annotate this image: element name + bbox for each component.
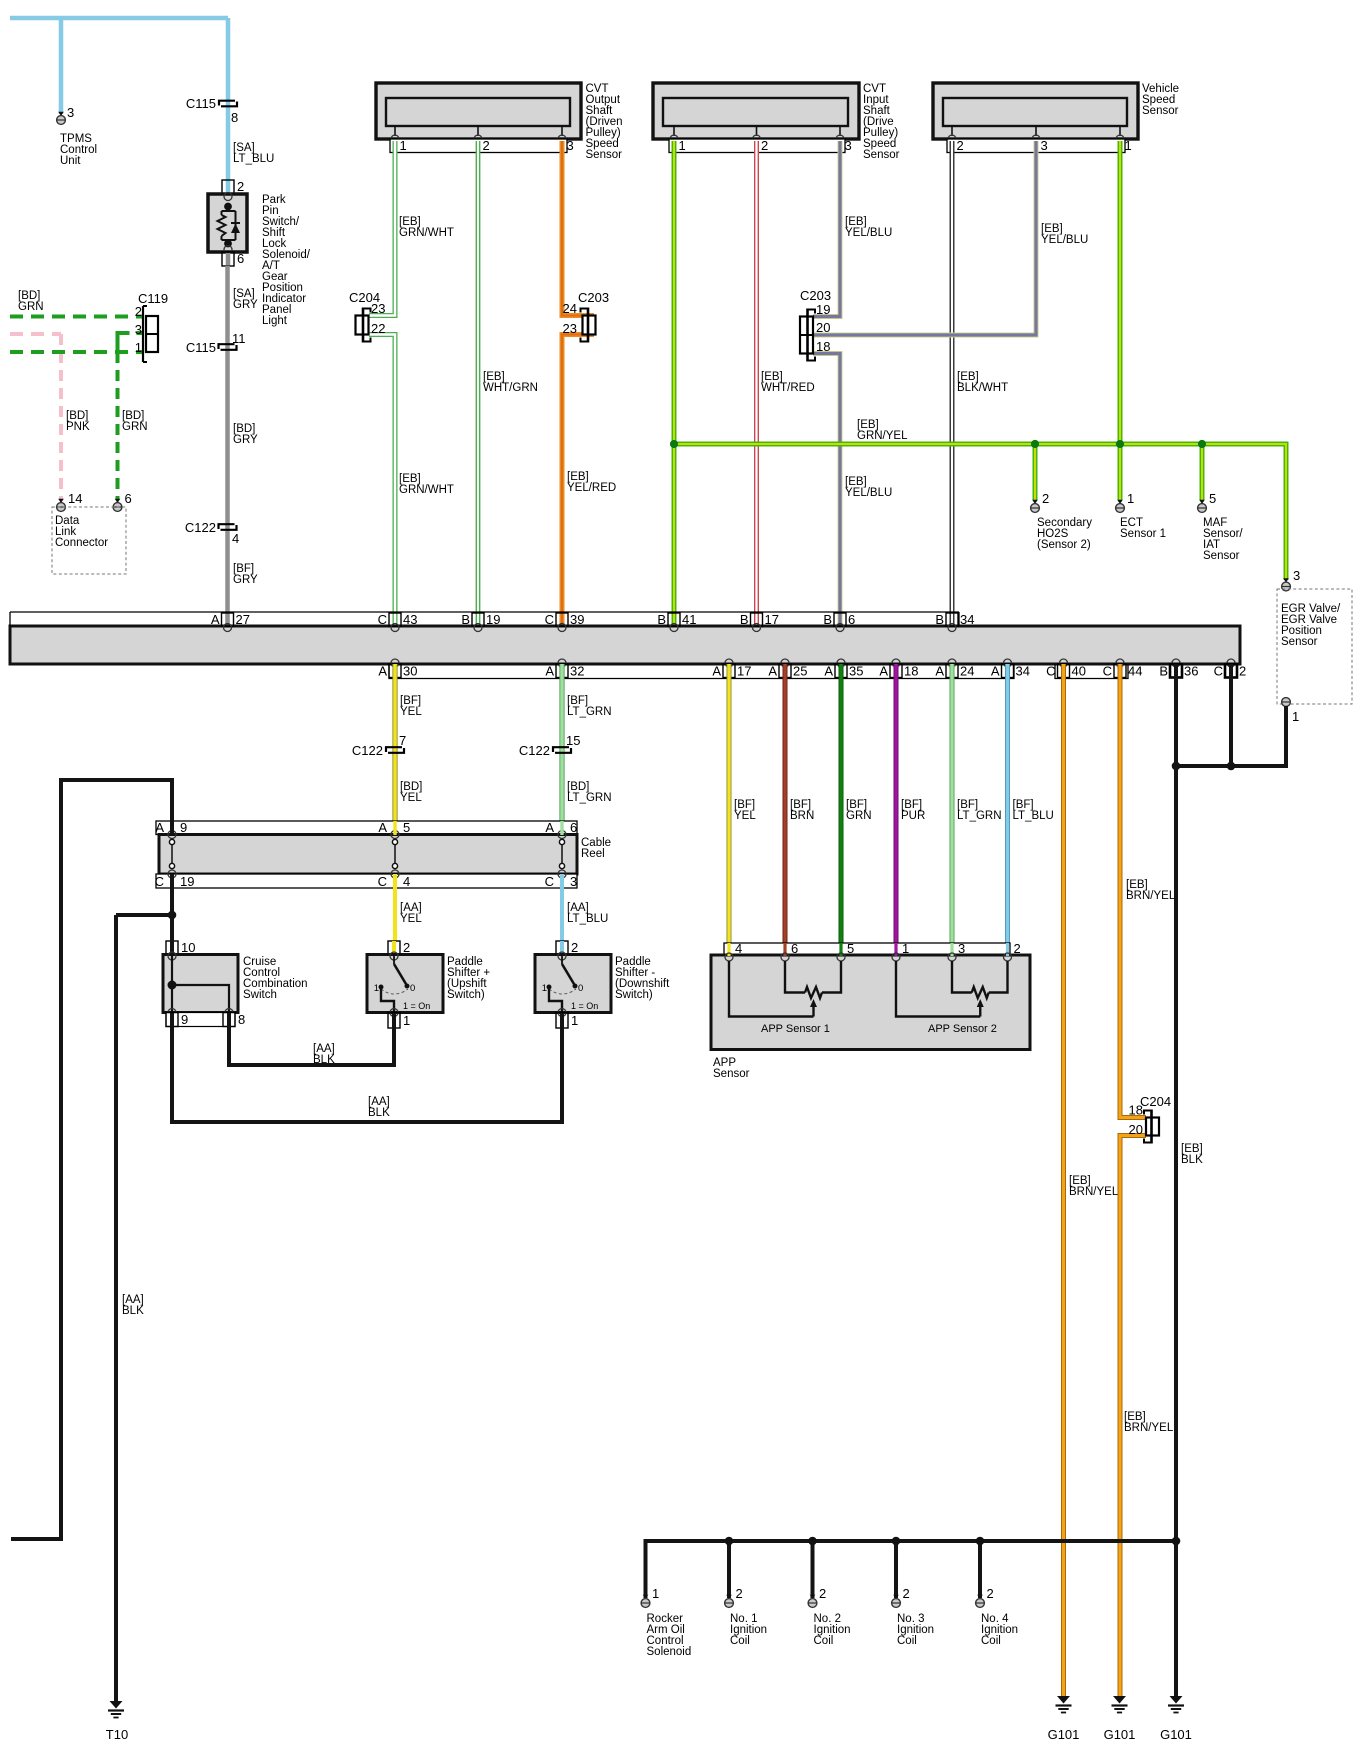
svg-text:GRN/WHT: GRN/WHT bbox=[399, 484, 454, 496]
svg-text:1: 1 bbox=[1127, 491, 1134, 506]
svg-text:39: 39 bbox=[570, 612, 584, 627]
svg-text:14: 14 bbox=[68, 491, 82, 506]
svg-text:6: 6 bbox=[237, 251, 244, 266]
svg-text:3: 3 bbox=[67, 105, 74, 120]
svg-text:Coil: Coil bbox=[730, 1635, 750, 1647]
svg-text:Light: Light bbox=[262, 315, 288, 327]
svg-text:GRN/YEL: GRN/YEL bbox=[857, 430, 908, 442]
svg-text:YEL/BLU: YEL/BLU bbox=[845, 227, 892, 239]
svg-text:PNK: PNK bbox=[66, 421, 90, 433]
svg-text:24: 24 bbox=[563, 301, 577, 316]
svg-text:G101: G101 bbox=[1160, 1727, 1192, 1742]
svg-text:43: 43 bbox=[403, 612, 417, 627]
svg-text:19: 19 bbox=[180, 874, 194, 889]
svg-text:C: C bbox=[1046, 664, 1055, 679]
svg-text:A: A bbox=[211, 612, 220, 627]
svg-text:0: 0 bbox=[410, 983, 415, 994]
svg-text:2: 2 bbox=[987, 1586, 994, 1601]
svg-text:A: A bbox=[155, 820, 164, 835]
svg-text:C: C bbox=[1214, 664, 1223, 679]
svg-text:4: 4 bbox=[232, 531, 239, 546]
svg-text:1: 1 bbox=[571, 1013, 578, 1028]
svg-text:C122: C122 bbox=[185, 520, 216, 535]
svg-text:1 = On: 1 = On bbox=[571, 1001, 598, 1011]
svg-text:1: 1 bbox=[374, 983, 379, 994]
svg-text:18: 18 bbox=[1129, 1103, 1143, 1118]
svg-text:10: 10 bbox=[181, 940, 195, 955]
svg-text:BLK/WHT: BLK/WHT bbox=[957, 382, 1008, 394]
svg-text:32: 32 bbox=[570, 664, 584, 679]
svg-text:GRN: GRN bbox=[122, 421, 148, 433]
svg-text:19: 19 bbox=[486, 612, 500, 627]
svg-text:2: 2 bbox=[957, 138, 964, 153]
svg-text:8: 8 bbox=[238, 1012, 245, 1027]
svg-text:7: 7 bbox=[399, 733, 406, 748]
svg-text:Sensor: Sensor bbox=[1281, 636, 1318, 648]
svg-text:C: C bbox=[545, 612, 554, 627]
svg-text:A: A bbox=[991, 664, 1000, 679]
svg-text:8: 8 bbox=[231, 110, 238, 125]
svg-text:4: 4 bbox=[735, 941, 742, 956]
svg-text:2: 2 bbox=[571, 940, 578, 955]
svg-text:2: 2 bbox=[903, 1586, 910, 1601]
svg-text:1: 1 bbox=[1292, 709, 1299, 724]
svg-text:C203: C203 bbox=[800, 288, 831, 303]
svg-text:2: 2 bbox=[736, 1586, 743, 1601]
svg-text:9: 9 bbox=[180, 820, 187, 835]
svg-text:Switch): Switch) bbox=[447, 989, 485, 1001]
svg-text:22: 22 bbox=[371, 321, 385, 336]
svg-text:1: 1 bbox=[1125, 138, 1132, 153]
svg-text:34: 34 bbox=[960, 612, 974, 627]
svg-text:2: 2 bbox=[403, 940, 410, 955]
svg-text:Sensor 1: Sensor 1 bbox=[1120, 528, 1166, 540]
svg-text:YEL: YEL bbox=[400, 706, 422, 718]
svg-text:A: A bbox=[879, 664, 888, 679]
svg-text:3: 3 bbox=[958, 941, 965, 956]
svg-text:A: A bbox=[378, 820, 387, 835]
svg-text:YEL/RED: YEL/RED bbox=[567, 482, 616, 494]
svg-text:C115: C115 bbox=[186, 340, 216, 355]
svg-text:WHT/GRN: WHT/GRN bbox=[483, 382, 538, 394]
svg-text:1: 1 bbox=[400, 138, 407, 153]
svg-text:3: 3 bbox=[845, 138, 852, 153]
svg-text:9: 9 bbox=[181, 1012, 188, 1027]
svg-text:Unit: Unit bbox=[60, 155, 81, 167]
svg-text:BLK: BLK bbox=[1181, 1154, 1203, 1166]
svg-text:6: 6 bbox=[848, 612, 855, 627]
svg-text:2: 2 bbox=[135, 304, 142, 319]
svg-text:B: B bbox=[740, 612, 749, 627]
svg-text:18: 18 bbox=[816, 339, 830, 354]
svg-text:1: 1 bbox=[679, 138, 686, 153]
svg-text:23: 23 bbox=[563, 321, 577, 336]
svg-text:A: A bbox=[768, 664, 777, 679]
svg-text:LT_GRN: LT_GRN bbox=[957, 810, 1002, 822]
svg-text:Solenoid: Solenoid bbox=[647, 1646, 692, 1658]
svg-text:Sensor: Sensor bbox=[586, 149, 623, 161]
svg-text:C: C bbox=[378, 612, 387, 627]
svg-text:B: B bbox=[935, 612, 944, 627]
svg-text:24: 24 bbox=[960, 664, 974, 679]
svg-text:A: A bbox=[545, 664, 554, 679]
svg-text:A: A bbox=[935, 664, 944, 679]
svg-text:B: B bbox=[461, 612, 470, 627]
svg-text:3: 3 bbox=[1293, 568, 1300, 583]
svg-text:Sensor: Sensor bbox=[713, 1068, 750, 1080]
svg-text:GRY: GRY bbox=[233, 299, 258, 311]
svg-text:Switch): Switch) bbox=[615, 989, 653, 1001]
svg-text:GRN: GRN bbox=[846, 810, 872, 822]
svg-text:BRN/YEL: BRN/YEL bbox=[1124, 1422, 1174, 1434]
svg-text:A: A bbox=[824, 664, 833, 679]
svg-text:34: 34 bbox=[1016, 664, 1030, 679]
svg-text:APP Sensor 2: APP Sensor 2 bbox=[928, 1023, 997, 1035]
svg-text:G101: G101 bbox=[1048, 1727, 1080, 1742]
svg-text:G101: G101 bbox=[1104, 1727, 1136, 1742]
svg-text:YEL: YEL bbox=[734, 810, 756, 822]
svg-text:4: 4 bbox=[403, 874, 410, 889]
svg-text:2: 2 bbox=[819, 1586, 826, 1601]
svg-text:23: 23 bbox=[371, 301, 385, 316]
svg-text:2: 2 bbox=[761, 138, 768, 153]
svg-text:YEL/BLU: YEL/BLU bbox=[845, 487, 892, 499]
svg-text:30: 30 bbox=[403, 664, 417, 679]
svg-text:Coil: Coil bbox=[814, 1635, 834, 1647]
svg-text:WHT/RED: WHT/RED bbox=[761, 382, 815, 394]
svg-text:C115: C115 bbox=[186, 96, 216, 111]
svg-text:C: C bbox=[378, 874, 387, 889]
svg-text:A: A bbox=[378, 664, 387, 679]
svg-text:18: 18 bbox=[904, 664, 918, 679]
svg-text:25: 25 bbox=[793, 664, 807, 679]
svg-text:Reel: Reel bbox=[581, 848, 605, 860]
svg-text:3: 3 bbox=[570, 874, 577, 889]
svg-text:19: 19 bbox=[816, 302, 830, 317]
svg-text:BRN/YEL: BRN/YEL bbox=[1069, 1186, 1119, 1198]
svg-text:B: B bbox=[823, 612, 832, 627]
svg-text:2: 2 bbox=[1239, 664, 1246, 679]
svg-text:LT_BLU: LT_BLU bbox=[567, 913, 608, 925]
svg-text:44: 44 bbox=[1128, 664, 1142, 679]
svg-text:Sensor: Sensor bbox=[1203, 550, 1240, 562]
svg-text:3: 3 bbox=[135, 322, 142, 337]
svg-text:1 = On: 1 = On bbox=[403, 1001, 430, 1011]
svg-text:35: 35 bbox=[849, 664, 863, 679]
svg-text:C122: C122 bbox=[519, 743, 550, 758]
svg-text:BLK: BLK bbox=[313, 1054, 335, 1066]
svg-text:YEL: YEL bbox=[400, 792, 422, 804]
svg-text:2: 2 bbox=[1014, 941, 1021, 956]
svg-text:1: 1 bbox=[542, 983, 547, 994]
svg-text:C119: C119 bbox=[138, 291, 168, 306]
svg-text:2: 2 bbox=[1042, 491, 1049, 506]
svg-text:6: 6 bbox=[125, 491, 132, 506]
svg-text:APP Sensor 1: APP Sensor 1 bbox=[761, 1023, 830, 1035]
svg-text:Connector: Connector bbox=[55, 537, 108, 549]
svg-text:C204: C204 bbox=[1140, 1094, 1171, 1109]
svg-text:YEL: YEL bbox=[400, 913, 422, 925]
svg-text:5: 5 bbox=[1209, 491, 1216, 506]
svg-text:3: 3 bbox=[1041, 138, 1048, 153]
svg-text:0: 0 bbox=[578, 983, 583, 994]
svg-text:Coil: Coil bbox=[897, 1635, 917, 1647]
svg-text:GRN/WHT: GRN/WHT bbox=[399, 227, 454, 239]
svg-text:C: C bbox=[545, 874, 554, 889]
svg-text:11: 11 bbox=[232, 331, 246, 346]
svg-text:3: 3 bbox=[567, 138, 574, 153]
svg-text:41: 41 bbox=[682, 612, 696, 627]
svg-text:1: 1 bbox=[403, 1013, 410, 1028]
svg-text:A: A bbox=[545, 820, 554, 835]
svg-text:BRN/YEL: BRN/YEL bbox=[1126, 890, 1176, 902]
svg-text:5: 5 bbox=[847, 941, 854, 956]
svg-text:36: 36 bbox=[1184, 664, 1198, 679]
svg-text:C122: C122 bbox=[352, 743, 383, 758]
svg-text:Sensor: Sensor bbox=[863, 149, 900, 161]
svg-text:Coil: Coil bbox=[981, 1635, 1001, 1647]
svg-text:BRN: BRN bbox=[790, 810, 814, 822]
svg-text:C: C bbox=[1103, 664, 1112, 679]
svg-text:GRY: GRY bbox=[233, 434, 258, 446]
svg-text:1: 1 bbox=[902, 941, 909, 956]
svg-text:20: 20 bbox=[1129, 1122, 1143, 1137]
svg-text:A: A bbox=[712, 664, 721, 679]
svg-text:C203: C203 bbox=[578, 290, 609, 305]
svg-text:6: 6 bbox=[570, 820, 577, 835]
svg-text:LT_GRN: LT_GRN bbox=[567, 706, 612, 718]
svg-text:17: 17 bbox=[737, 664, 751, 679]
svg-text:B: B bbox=[657, 612, 666, 627]
svg-text:LT_BLU: LT_BLU bbox=[1013, 810, 1054, 822]
svg-text:15: 15 bbox=[566, 733, 580, 748]
svg-text:LT_BLU: LT_BLU bbox=[233, 153, 274, 165]
svg-text:17: 17 bbox=[765, 612, 779, 627]
svg-text:LT_GRN: LT_GRN bbox=[567, 792, 612, 804]
svg-text:C: C bbox=[155, 874, 164, 889]
svg-text:1: 1 bbox=[652, 1586, 659, 1601]
svg-text:(Sensor 2): (Sensor 2) bbox=[1037, 539, 1091, 551]
svg-text:BLK: BLK bbox=[368, 1107, 390, 1119]
svg-text:PUR: PUR bbox=[901, 810, 925, 822]
svg-text:2: 2 bbox=[237, 179, 244, 194]
svg-text:B: B bbox=[1159, 664, 1168, 679]
svg-text:GRY: GRY bbox=[233, 574, 258, 586]
svg-text:6: 6 bbox=[791, 941, 798, 956]
svg-text:Sensor: Sensor bbox=[1142, 105, 1179, 117]
svg-text:1: 1 bbox=[135, 340, 142, 355]
svg-text:BLK: BLK bbox=[122, 1305, 144, 1317]
svg-text:2: 2 bbox=[483, 138, 490, 153]
svg-text:27: 27 bbox=[236, 612, 250, 627]
svg-text:40: 40 bbox=[1072, 664, 1086, 679]
svg-text:5: 5 bbox=[403, 820, 410, 835]
svg-text:20: 20 bbox=[816, 320, 830, 335]
svg-text:Switch: Switch bbox=[243, 989, 277, 1001]
svg-text:T10: T10 bbox=[106, 1727, 128, 1742]
svg-text:YEL/BLU: YEL/BLU bbox=[1041, 234, 1088, 246]
svg-text:GRN: GRN bbox=[18, 301, 44, 313]
